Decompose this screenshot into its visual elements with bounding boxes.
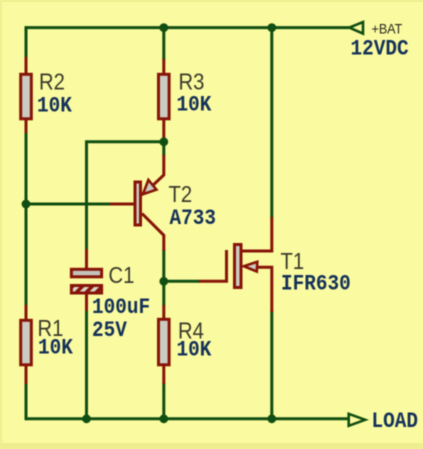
resistor R4 name label [178,317,204,344]
source pin [257,267,272,312]
capacitor C1 value label [92,296,150,320]
wire emitter stub below junction [162,142,165,156]
capacitor C1 name label [109,262,135,289]
node junction bottom rail / T1 source [267,414,276,423]
resistor R3 [159,59,170,142]
svg-text:R2: R2 [39,68,65,95]
svg-text:C1: C1 [109,262,135,289]
gate pin [199,280,228,283]
wire top rail [26,26,349,29]
node junction base row / left column [22,200,31,209]
channel bar [235,245,242,288]
net label 12VDC [351,38,409,62]
svg-text:T2: T2 [169,181,193,208]
svg-text:A733: A733 [170,207,216,231]
resistor R3 value label [177,94,212,118]
bottom border shade [0,443,423,449]
svg-text:10K: 10K [37,95,72,119]
svg-text:12VDC: 12VDC [351,38,409,62]
power symbol +BAT arrow [349,22,363,34]
svg-text:10K: 10K [38,337,73,361]
svg-text:LOAD: LOAD [372,410,418,434]
wire C1 bottom to rail [85,310,88,419]
power symbol LOAD arrow [349,414,366,426]
emitter pin [152,155,163,186]
wire left column bottom (R1 to bottom rail) [25,383,28,420]
wire R4 bottom to rail [162,383,165,419]
wire R3 column top (rail to R3) [162,28,165,60]
resistor R2 name label [39,68,65,95]
node junction bottom rail / R4 [159,414,168,423]
top border shade [0,0,423,2]
collector pin [142,214,164,251]
node junction collector / gate / R4 [159,277,168,286]
svg-text:+BAT: +BAT [372,21,403,37]
resistor R2 [21,57,32,133]
svg-text:T1: T1 [281,248,305,275]
transistor T1 (N-MOSFET IFR630) [199,217,272,312]
resistor R4 value label [177,339,212,363]
svg-text:100uF: 100uF [92,296,150,320]
node junction top rail / R3 [159,23,168,32]
base pin [110,203,134,206]
resistor R4 [159,305,170,384]
left border shade [0,0,2,449]
transistor T1 value label [281,273,351,297]
net label +BAT [372,21,403,37]
gate line [225,250,228,281]
wire gate row [164,280,200,283]
wire bottom rail [26,417,349,420]
svg-text:10K: 10K [177,94,212,118]
source arrow [244,262,257,272]
resistor R1 name label [38,315,64,342]
wire collector to gate junction [162,250,165,282]
wire gate junction to R4 [162,281,165,306]
wire C1 column (corner down to C1) [85,142,88,250]
wire left column middle (R2 to base junction to R1) [25,132,28,306]
resistor R2 value label [37,95,72,119]
wire base row [26,203,112,206]
svg-text:IFR630: IFR630 [281,273,351,297]
capacitor C1 [71,249,101,311]
wire source column (T1 to bottom rail) [270,311,273,419]
node junction top rail / drain column [267,23,276,32]
node junction bottom rail / C1 [82,414,91,423]
wire emitter node row (C1 top corner to R3 bottom junction) [87,140,164,142]
drain pin [243,217,272,251]
transistor T2 name label [169,181,193,208]
wire drain column (rail to T1) [270,26,273,218]
transistor T1 name label [281,248,305,275]
svg-text:10K: 10K [177,339,212,363]
resistor R1 [21,305,32,384]
svg-text:R3: R3 [179,68,205,95]
capacitor C1 voltage label [92,319,127,343]
net label LOAD [372,410,418,434]
svg-text:25V: 25V [92,319,127,343]
wire left column top (rail to R2) [25,26,28,58]
transistor T2 value label [170,207,216,231]
node junction R3 bottom / emitter [159,137,168,146]
resistor R1 value label [38,337,73,361]
resistor R3 name label [179,68,205,95]
transistor T2 (PNP A733) [110,155,164,251]
base bar [135,182,141,225]
emitter arrow [143,180,157,194]
